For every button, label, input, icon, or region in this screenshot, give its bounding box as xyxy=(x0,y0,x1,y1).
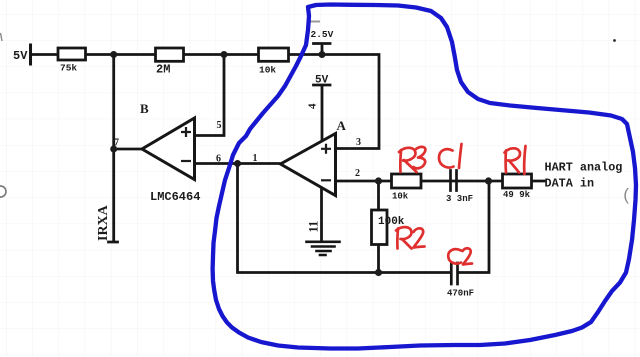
svg-text:2.5V: 2.5V xyxy=(311,29,334,40)
svg-text:5V: 5V xyxy=(315,75,329,87)
svg-text:10k: 10k xyxy=(259,65,276,76)
svg-text:A: A xyxy=(337,118,347,133)
svg-text:5: 5 xyxy=(217,120,222,131)
svg-text:4: 4 xyxy=(307,103,319,109)
svg-text:3 3nF: 3 3nF xyxy=(446,194,473,204)
svg-text:B: B xyxy=(140,101,149,116)
svg-text:5V: 5V xyxy=(13,49,28,63)
svg-text:(: ( xyxy=(622,187,632,206)
svg-text:11: 11 xyxy=(307,221,321,233)
svg-text:470nF: 470nF xyxy=(447,289,474,299)
svg-text:2: 2 xyxy=(355,168,360,179)
svg-text:2M: 2M xyxy=(156,63,170,77)
svg-text:75k: 75k xyxy=(60,63,77,74)
svg-text:6: 6 xyxy=(216,154,221,165)
svg-text:7: 7 xyxy=(114,138,119,149)
svg-text:IRXA: IRXA xyxy=(96,204,111,241)
svg-text:49 9k: 49 9k xyxy=(503,190,531,200)
svg-text:HART analog: HART analog xyxy=(545,161,623,175)
svg-text:LMC6464: LMC6464 xyxy=(150,190,200,204)
svg-text:10k: 10k xyxy=(392,192,409,202)
svg-text:1: 1 xyxy=(253,153,258,164)
svg-text:DATA in: DATA in xyxy=(545,177,595,191)
svg-text:3: 3 xyxy=(356,137,361,148)
svg-text:100k: 100k xyxy=(378,216,405,228)
